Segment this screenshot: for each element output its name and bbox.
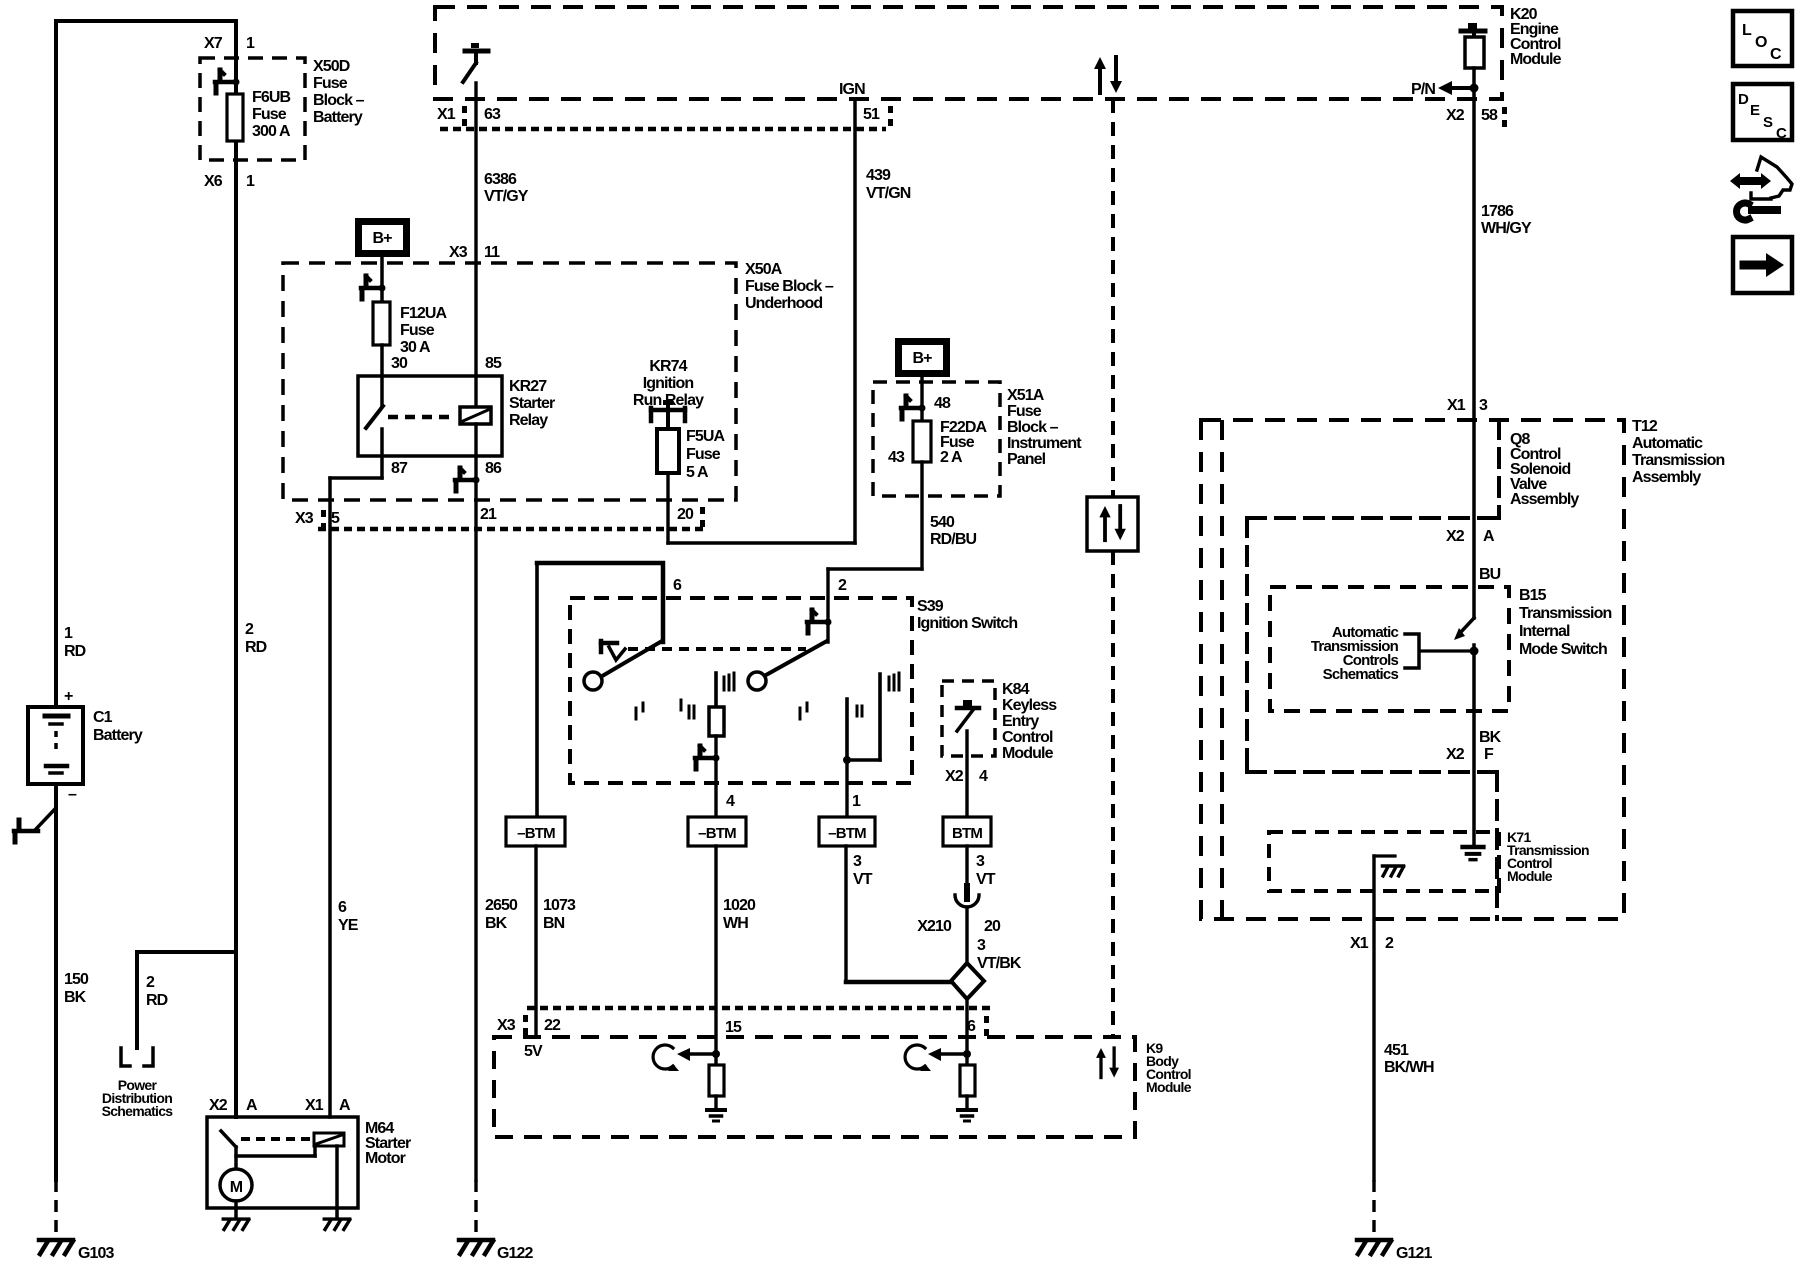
icon vehicle with arrow [1730,157,1792,220]
svg-text:A: A [246,1097,258,1114]
svg-text:30: 30 [391,355,408,372]
wire battery feed to fuse block X50D [234,21,238,1117]
wire 1020 WH [714,846,717,1065]
pin 87 [391,460,408,477]
fuse F12UA [373,302,390,345]
svg-text:87: 87 [391,460,408,477]
svg-text:6: 6 [673,577,682,594]
B15 switch arm [1454,618,1474,640]
node 5V [524,1043,543,1060]
wire 451 BK/WH [1372,856,1375,1180]
S39 right position II contact line [845,699,849,760]
ECM internal crank switch [463,43,488,82]
splice diamond [951,963,984,999]
svg-text:20: 20 [984,918,1001,935]
wire motor to ground [234,1201,238,1218]
wire 3 VT from -BTM 3 [846,846,951,982]
svg-text:BK/WH: BK/WH [1384,1059,1434,1076]
svg-text:B+: B+ [912,350,932,367]
svg-text:1: 1 [246,173,255,190]
wire 6 YE label [338,899,359,934]
svg-text:BK: BK [64,989,87,1006]
svg-text:4: 4 [726,793,735,810]
svg-text:BTM: BTM [952,825,982,842]
svg-text:L: L [1742,22,1752,39]
svg-text:Fuse Block –: Fuse Block – [745,278,834,295]
wire BU label [1479,566,1501,583]
S39 left position II marker [681,700,694,718]
svg-text:1: 1 [64,625,73,642]
wire 2650 BK label [485,897,518,932]
wire 3 VT label left [853,853,873,888]
relay KR27 contact arm [366,376,383,428]
svg-text:451: 451 [1384,1042,1409,1059]
svg-text:X3: X3 [295,510,314,527]
svg-text:Control: Control [1002,729,1053,746]
solenoid valve assembly Q8 label [1510,431,1579,508]
pin X3 22 [497,1015,561,1035]
S39 left position III marker [724,673,734,690]
svg-text:VT/GN: VT/GN [866,185,911,202]
svg-text:X50D: X50D [313,58,350,75]
svg-text:Fuse: Fuse [313,75,348,92]
svg-text:X7: X7 [204,35,223,52]
svg-text:1786: 1786 [1481,203,1514,220]
serial data dashed line upper [1111,99,1115,497]
wire coil to motor node [236,1146,315,1156]
body control module K9 label [1146,1040,1192,1095]
wire fuse to relay pin 30 [380,345,384,376]
body control module K9 box [494,1037,1135,1137]
S39 right position I marker [800,703,807,719]
wire B+ to fuse F22DA [920,377,923,421]
svg-text:X2: X2 [1446,746,1465,763]
svg-text:Automatic: Automatic [1632,435,1703,452]
BCM pin6 pull resistor [960,1065,975,1108]
solenoid valve assembly Q8 box [1247,420,1499,518]
svg-text:RD: RD [64,643,86,660]
svg-text:4: 4 [979,768,988,785]
starter solenoid switch arm [221,1131,236,1169]
wire 3 VT from BTM 4 [965,846,968,899]
svg-text:X1: X1 [305,1097,324,1114]
svg-text:Block –: Block – [1007,419,1059,436]
svg-text:VT: VT [976,871,996,888]
svg-text:KR27: KR27 [509,378,547,395]
pin 2 ignition switch [838,577,847,594]
node battery minus [68,786,77,803]
mode switch B15 label [1519,587,1611,658]
transmission control module K71 label [1507,829,1589,884]
clip X50D [215,70,240,93]
svg-text:WH: WH [723,915,748,932]
svg-text:IGN: IGN [839,81,865,98]
svg-text:X3: X3 [497,1017,516,1034]
svg-text:300 A: 300 A [252,123,291,140]
svg-text:43: 43 [888,449,905,466]
svg-text:86: 86 [485,460,502,477]
svg-text:30 A: 30 A [400,339,431,356]
svg-text:Assembly: Assembly [1510,491,1579,508]
wire 439 VT/GN [668,99,855,543]
fuse block X50D box [200,58,305,160]
svg-text:P/N: P/N [1411,81,1435,98]
wire 6386 VT/GY [474,83,477,407]
wire 1020 WH label [723,897,756,932]
clip ignition switch pin 2 [807,610,832,633]
svg-text:BN: BN [543,915,565,932]
clip F22DA [901,396,926,419]
BCM serial data arrows [1096,1048,1119,1078]
svg-text:20: 20 [677,506,694,523]
power symbol B+ second [895,338,950,377]
svg-text:Ignition: Ignition [643,375,694,392]
svg-text:Module: Module [1510,51,1562,68]
terminal box -BTM 2 [688,817,746,846]
keyless entry module K84 box [942,681,995,756]
fuse F22DA label [940,419,988,466]
S39 left contact clip [601,641,625,660]
node battery plus [64,688,73,705]
ground starter motor [223,1219,249,1230]
svg-text:VT: VT [853,871,873,888]
wire 540 RD/BU [828,462,922,642]
svg-text:O: O [1755,34,1767,51]
clip battery negative terminal [14,810,54,842]
pin X2 A starter [209,1097,258,1114]
ignition switch S39 box [570,598,912,783]
svg-text:Battery: Battery [313,109,363,126]
pin X6 1 [204,173,255,190]
svg-text:5V: 5V [524,1043,543,1060]
ground G122 [459,1240,534,1262]
wire 1073 BN [534,846,537,1037]
pin 20 [677,506,705,527]
svg-text:5 A: 5 A [686,464,709,481]
wire 1073 BN label [543,897,576,932]
svg-text:–BTM: –BTM [698,825,736,842]
wire 1 RD label [64,625,86,660]
svg-text:48: 48 [934,395,951,412]
wire relay 86 down 2650 BK [474,424,477,1180]
battery C1 label [93,709,143,744]
svg-text:RD/BU: RD/BU [930,531,977,548]
svg-text:Fuse: Fuse [686,446,721,463]
clip S39 pin 4 [695,746,720,769]
wire dashed lead to G103 [54,1180,58,1237]
ECM internal voltage supply bar [1461,23,1485,37]
transmission assembly T12 box [1201,420,1624,919]
svg-text:Internal: Internal [1519,623,1570,640]
fuse F6UB [227,94,243,141]
svg-text:Entry: Entry [1002,713,1039,730]
ECM internal resistor [1465,37,1484,68]
svg-text:58: 58 [1481,107,1498,124]
svg-text:Fuse: Fuse [252,106,287,123]
svg-text:A: A [1483,528,1495,545]
pin X7 1 [204,35,255,52]
fuse F5UA label [686,428,726,481]
svg-text:–BTM: –BTM [517,825,555,842]
svg-text:X1: X1 [1447,397,1466,414]
svg-text:2: 2 [1385,935,1394,952]
svg-text:Underhood: Underhood [745,295,822,312]
connector X3 BCM dotted line [527,1006,992,1011]
serial data up-down arrows top [1094,57,1122,93]
pin X2 58 [1446,107,1507,127]
svg-text:G122: G122 [497,1245,534,1262]
svg-text:3: 3 [976,853,985,870]
S39 right position III marker [889,673,899,690]
pin X1 A starter [305,1097,351,1114]
ignition run relay KR74 label [633,358,704,409]
svg-text:VT/BK: VT/BK [977,955,1022,972]
node P/N arrow [1411,81,1478,98]
wire S39 position III contact [714,673,718,707]
wire 1786 WH/GY [1472,68,1476,618]
BCM pin6 pulse arrow [905,1045,931,1071]
pin X1 2 TCM [1350,935,1394,952]
wire dashed lead to G122 [474,1180,477,1237]
fuse block X50D label [313,58,365,126]
svg-text:150: 150 [64,971,89,988]
keyless entry module K84 label [1002,681,1057,762]
wire splice to pin 6 [965,999,968,1065]
svg-text:F: F [1484,746,1494,763]
reference automatic transmission controls label [1311,624,1399,683]
wire relay 87 to starter 6 YE [330,429,382,1117]
power distribution schematics label [102,1077,174,1119]
pin X1 63 [437,106,501,123]
svg-text:3: 3 [1479,397,1488,414]
svg-text:5: 5 [331,510,340,527]
svg-text:A: A [339,1097,351,1114]
engine control module K20 label [1510,6,1562,68]
svg-text:Battery: Battery [93,727,143,744]
battery C1 [28,707,83,784]
svg-text:BK: BK [485,915,508,932]
starter motor M64 label [365,1120,411,1167]
svg-text:B15: B15 [1519,587,1547,604]
pin 43 [888,449,905,466]
svg-text:D: D [1738,91,1749,108]
svg-text:3: 3 [853,853,862,870]
fuse F5UA [657,429,679,473]
off-page connector power distribution [121,1048,153,1066]
pin X2 4 keyless [945,768,988,785]
ground BCM pin6 internal [958,1110,976,1121]
svg-text:21: 21 [480,506,497,523]
svg-text:Panel: Panel [1007,451,1046,468]
transmission control module K71 box [1269,832,1499,891]
svg-text:1073: 1073 [543,897,576,914]
S39 left position I marker [636,703,643,719]
svg-text:VT/GY: VT/GY [484,188,529,205]
wire 540 RD/BU label [930,514,977,548]
svg-text:X50A: X50A [745,261,783,278]
svg-text:Mode Switch: Mode Switch [1519,641,1607,658]
power symbol B+ first [355,218,410,257]
wire solenoid to ground [335,1146,339,1218]
pin 21 [480,506,497,523]
node IGN [839,81,865,98]
fuse F6UB label [252,89,291,140]
svg-text:S39: S39 [917,598,944,615]
svg-text:15: 15 [725,1019,742,1036]
svg-text:X1: X1 [1350,935,1369,952]
svg-text:Relay: Relay [509,412,548,429]
starter relay KR27 box [358,376,502,456]
S39 right position II marker [857,706,862,716]
relay KR27 label [509,378,555,429]
starter solenoid coil [314,1133,344,1146]
svg-text:X2: X2 [945,768,964,785]
svg-text:Module: Module [1146,1079,1192,1095]
K71 internal ground stub [1374,856,1404,876]
wire 3 VT/BK label [977,937,1022,972]
wire 2 RD branch label [146,974,168,1009]
connector X1 dots [462,106,467,126]
svg-text:X210: X210 [917,918,952,935]
ground starter solenoid [324,1219,350,1230]
svg-text:K84: K84 [1002,681,1030,698]
terminal box BTM 4 [943,817,991,846]
T12 inner boundary [1220,420,1224,919]
clip F12UA [361,276,386,299]
svg-text:1: 1 [852,793,861,810]
pin X2 F [1446,746,1494,763]
fuse F12UA label [400,305,448,356]
pin X1 3 [1447,397,1488,414]
svg-text:RD: RD [245,639,267,656]
wire battery positive top loop [56,21,236,707]
serial data arrow box [1087,497,1138,551]
svg-text:Fuse: Fuse [1007,403,1042,420]
S39 contact block [709,707,724,736]
starter solenoid link dashed [241,1137,313,1141]
pin 85 [485,355,502,372]
svg-text:Keyless: Keyless [1002,697,1057,714]
ground G103 [39,1240,115,1262]
svg-text:Transmission: Transmission [1632,452,1724,469]
pin 51 [863,106,893,126]
svg-text:2: 2 [146,974,155,991]
svg-text:B+: B+ [372,230,392,247]
wire F5UA to IGN [666,473,669,543]
clip relay 86 [455,468,480,491]
svg-text:G121: G121 [1396,1245,1433,1262]
svg-text:3: 3 [977,937,986,954]
wire 6386 VT/GY label [484,171,529,205]
svg-text:E: E [1750,102,1760,119]
ground G121 [1357,1240,1433,1262]
terminal box -BTM 1 [506,817,565,846]
wire battery negative [54,784,58,1180]
connector X1 dotted line [440,127,886,132]
wire 439 VT/GN label [866,167,911,202]
icon DESC box [1733,84,1792,142]
svg-text:S: S [1763,114,1773,131]
BCM pin15 input arrow [677,1048,720,1061]
ground B15 internal [1463,847,1484,860]
T12 harness connector box [1247,518,1497,919]
S39 right position III contact line [843,674,880,764]
svg-text:Block –: Block – [313,92,365,109]
wire S39 pin 4 [714,736,717,817]
BCM pin6 input arrow [928,1048,971,1061]
svg-text:Assembly: Assembly [1632,469,1701,486]
svg-text:6386: 6386 [484,171,517,188]
relay KR27 link dashed [388,415,455,420]
reference automatic transmission controls link [1405,634,1474,668]
svg-text:X3: X3 [449,244,468,261]
svg-text:F12UA: F12UA [400,305,448,322]
svg-text:Schematics: Schematics [102,1103,174,1119]
svg-text:+: + [64,688,73,705]
svg-text:X51A: X51A [1007,387,1045,404]
wire 451 BK/WH label [1384,1042,1434,1076]
S39 right switch arm [766,641,827,675]
svg-text:X6: X6 [204,173,223,190]
wire 3 VT label right [976,853,996,888]
transmission assembly T12 label [1632,418,1724,486]
svg-text:Module: Module [1002,745,1054,762]
wire branch to power distribution [137,952,236,1048]
svg-text:1: 1 [246,35,255,52]
svg-text:Schematics: Schematics [1323,666,1399,683]
motor M [220,1169,252,1201]
serial data dashed line lower [1111,551,1115,1037]
ground BCM pin15 internal [707,1110,725,1121]
pin 6 ignition switch [673,577,682,594]
svg-text:–: – [68,786,77,803]
svg-text:F6UB: F6UB [252,89,291,106]
svg-text:BK: BK [1479,729,1502,746]
svg-text:C1: C1 [93,709,113,726]
pin X3 5 [295,510,340,530]
svg-text:T12: T12 [1632,418,1658,435]
engine control module K20 box [435,7,1502,99]
svg-text:M: M [230,1179,243,1196]
BCM pin15 pulse arrow [653,1045,679,1071]
wire BK label [1479,729,1502,746]
svg-text:51: 51 [863,106,880,123]
pin X2 A [1446,528,1495,545]
connector X3 dotted line [318,527,703,532]
svg-text:–BTM: –BTM [828,825,866,842]
S39 ganged link dashed [628,647,806,651]
starter motor M64 box [207,1117,358,1208]
svg-text:22: 22 [544,1017,561,1034]
svg-text:YE: YE [338,917,359,934]
svg-text:Motor: Motor [365,1150,406,1167]
pin 86 [485,460,502,477]
svg-text:2: 2 [245,621,254,638]
pin 15 [725,1019,742,1036]
wire 150 BK label [64,971,89,1006]
svg-text:Ignition Switch: Ignition Switch [917,615,1017,632]
svg-text:X2: X2 [209,1097,228,1114]
wire B+ to fuse F12UA [380,257,384,302]
svg-text:C: C [1776,125,1787,142]
wire dashed lead to G121 [1372,1180,1375,1237]
icon LOC box [1733,11,1792,66]
wire mode switch to ground BK [1470,645,1479,845]
fuse block X50A box [283,263,736,500]
S39 left switch arm [604,641,662,675]
wire S39 pin 1 [845,760,848,817]
inline connector X210 [955,895,979,907]
